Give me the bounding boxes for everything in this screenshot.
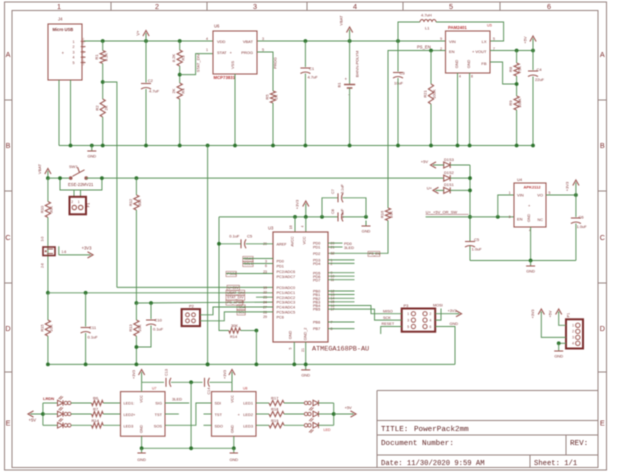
svg-text:PC1/ADC1: PC1/ADC1 — [277, 291, 296, 295]
svg-text:2: 2 — [73, 45, 75, 49]
svg-text:VSS: VSS — [230, 61, 235, 69]
svg-text:VIN: VIN — [449, 39, 456, 44]
svg-text:3: 3 — [262, 37, 264, 41]
svg-text:C: C — [600, 233, 605, 242]
svg-text:Sheet: 1/1: Sheet: 1/1 — [534, 460, 577, 468]
svg-text:PD1: PD1 — [313, 246, 320, 250]
svg-text:8.2K: 8.2K — [104, 53, 109, 62]
svg-text:VBAT: VBAT — [339, 15, 344, 26]
svg-text:LED2: LED2 — [243, 412, 253, 417]
svg-text:APK2112: APK2112 — [524, 185, 542, 190]
svg-text:GND_2: GND_2 — [304, 328, 308, 341]
svg-text:R9: R9 — [508, 100, 513, 106]
svg-text:4: 4 — [572, 342, 574, 346]
svg-text:U3: U3 — [268, 226, 274, 231]
svg-text:SDA: SDA — [238, 306, 246, 310]
svg-text:5: 5 — [449, 2, 453, 11]
svg-text:+3V3: +3V3 — [82, 246, 93, 251]
svg-text:+3V3: +3V3 — [448, 309, 457, 313]
svg-text:GND: GND — [229, 457, 238, 462]
svg-text:TITLE:: TITLE: — [381, 426, 408, 434]
svg-text:2: 2 — [155, 2, 159, 11]
svg-text:STAT_DIV: STAT_DIV — [196, 53, 201, 72]
svg-text:A: A — [6, 50, 11, 59]
svg-text:B: B — [6, 141, 11, 150]
svg-text:LED1: LED1 — [243, 401, 253, 406]
svg-text:SIG: SIG — [155, 401, 162, 406]
svg-text:2: 2 — [572, 330, 574, 334]
svg-text:SDA1: SDA1 — [244, 257, 253, 261]
svg-text:PC3/ADC7: PC3/ADC7 — [277, 275, 296, 279]
svg-text:18: 18 — [289, 225, 293, 229]
svg-text:+3V3: +3V3 — [223, 370, 227, 379]
svg-text:MCP73831: MCP73831 — [214, 75, 236, 80]
svg-text:10K: 10K — [389, 211, 394, 218]
svg-text:R14: R14 — [230, 334, 238, 339]
svg-text:0.1uF: 0.1uF — [153, 327, 164, 332]
svg-text:1-6: 1-6 — [62, 250, 67, 254]
svg-text:C14: C14 — [207, 388, 211, 395]
svg-text:PD7: PD7 — [313, 278, 320, 282]
svg-text:GND: GND — [289, 331, 293, 340]
svg-text:5: 5 — [73, 61, 75, 65]
svg-text:C: C — [5, 233, 10, 242]
svg-text:UBAT_DIV: UBAT_DIV — [227, 291, 245, 295]
svg-text:30K: 30K — [231, 323, 238, 328]
svg-text:C5: C5 — [474, 237, 480, 242]
svg-text:FB: FB — [481, 61, 486, 66]
svg-text:R6: R6 — [93, 396, 99, 401]
svg-text:R10: R10 — [39, 205, 44, 213]
svg-text:GND: GND — [301, 372, 310, 377]
svg-text:R15: R15 — [39, 324, 44, 332]
svg-text:BHNN-POLYM: BHNN-POLYM — [355, 51, 360, 77]
svg-text:AREF: AREF — [277, 242, 288, 246]
svg-text:1: 1 — [509, 191, 511, 195]
svg-text:LED2: LED2 — [124, 412, 134, 417]
svg-text:29: 29 — [263, 315, 267, 319]
svg-text:J4: J4 — [58, 17, 63, 22]
svg-text:Date: 11/30/2020 9:59 AM: Date: 11/30/2020 9:59 AM — [381, 460, 485, 468]
svg-text:100K: 100K — [517, 98, 522, 108]
svg-text:0.1uF: 0.1uF — [341, 183, 345, 193]
svg-text:2-6: 2-6 — [41, 263, 45, 268]
svg-text:MISO: MISO — [383, 309, 393, 313]
svg-text:L1: L1 — [425, 26, 430, 31]
svg-text:STAT_DIV: STAT_DIV — [227, 296, 244, 300]
svg-text:LED1:: LED1: — [124, 401, 135, 406]
svg-text:D1S3: D1S3 — [444, 157, 454, 162]
svg-text:+5V: +5V — [29, 418, 37, 423]
svg-text:8.2K: 8.2K — [171, 54, 176, 63]
svg-text:STAT: STAT — [217, 50, 227, 55]
svg-text:GND: GND — [137, 457, 146, 462]
svg-text:3: 3 — [265, 259, 267, 263]
svg-text:6: 6 — [547, 2, 551, 11]
svg-text:B: B — [600, 141, 605, 150]
svg-text:B1: B1 — [337, 82, 342, 88]
svg-text:4: 4 — [73, 56, 75, 60]
svg-text:LED3: LED3 — [124, 424, 134, 429]
svg-text:MOSI: MOSI — [433, 304, 443, 308]
svg-text:VCC: VCC — [231, 395, 235, 403]
svg-text:SCL: SCL — [238, 310, 245, 314]
svg-text:REV:: REV: — [570, 440, 588, 448]
svg-text:3: 3 — [572, 336, 574, 340]
svg-text:1: 1 — [57, 2, 61, 11]
svg-text:PC6: PC6 — [277, 315, 284, 319]
svg-text:R16: R16 — [380, 210, 385, 218]
svg-text:5: 5 — [493, 37, 495, 41]
svg-text:PROG: PROG — [241, 50, 253, 55]
svg-text:10K: 10K — [48, 324, 53, 331]
svg-text:R7: R7 — [93, 407, 99, 412]
svg-text:4: 4 — [430, 318, 432, 322]
svg-text:100K: 100K — [432, 89, 437, 99]
svg-text:22uF: 22uF — [535, 77, 545, 82]
svg-text:F1: F1 — [86, 202, 91, 207]
svg-text:GND: GND — [81, 59, 85, 65]
svg-text:R8: R8 — [508, 66, 513, 72]
svg-text:GND: GND — [526, 269, 535, 274]
svg-text:3LED: 3LED — [172, 397, 182, 402]
svg-text:5: 5 — [549, 191, 551, 195]
svg-text:U5: U5 — [487, 24, 492, 28]
svg-text:SW1: SW1 — [69, 164, 78, 169]
svg-text:PSO2: PSO2 — [227, 272, 237, 276]
svg-text:2K: 2K — [104, 105, 109, 110]
svg-text:PS_EN: PS_EN — [417, 45, 431, 50]
svg-text:D-: D- — [81, 45, 85, 48]
svg-text:LRDN: LRDN — [43, 396, 54, 401]
svg-text:C7: C7 — [331, 189, 335, 194]
svg-text:3: 3 — [509, 215, 511, 219]
svg-text:D1S2: D1S2 — [444, 170, 454, 175]
svg-text:1.0uF: 1.0uF — [577, 224, 588, 229]
svg-text:VCC: VCC — [303, 236, 307, 244]
svg-text:22: 22 — [263, 291, 267, 295]
svg-text:LX: LX — [482, 39, 487, 44]
svg-text:Document Number:: Document Number: — [381, 440, 454, 448]
svg-text:R4: R4 — [181, 88, 186, 94]
svg-text:GND: GND — [450, 322, 459, 326]
svg-text:SDO: SDO — [215, 424, 223, 429]
svg-text:GND: GND — [140, 425, 144, 433]
svg-text:2K: 2K — [274, 94, 279, 99]
svg-text:E: E — [6, 419, 11, 428]
svg-text:32: 32 — [331, 252, 335, 256]
svg-text:D1S1: D1S1 — [444, 182, 454, 187]
svg-text:PD1: PD1 — [277, 264, 284, 268]
svg-text:C11: C11 — [89, 325, 97, 330]
svg-text:4: 4 — [206, 37, 208, 41]
svg-text:24: 24 — [263, 301, 267, 305]
svg-text:6: 6 — [430, 325, 432, 329]
svg-text:GND: GND — [231, 425, 235, 433]
svg-text:P2: P2 — [189, 304, 195, 309]
svg-text:R21: R21 — [423, 90, 428, 98]
svg-text:1: 1 — [73, 40, 75, 44]
svg-text:+3V3: +3V3 — [531, 310, 535, 319]
svg-text:6: 6 — [265, 264, 267, 268]
svg-text:R5: R5 — [265, 94, 270, 100]
svg-text:R19: R19 — [271, 418, 279, 423]
svg-text:VCC: VCC — [140, 395, 144, 403]
svg-text:PB6: PB6 — [313, 321, 320, 325]
svg-text:P3: P3 — [404, 303, 410, 308]
svg-text:PD2: PD2 — [313, 252, 320, 256]
svg-text:PS_EN: PS_EN — [369, 252, 381, 256]
svg-text:NC: NC — [538, 218, 544, 222]
svg-text:3: 3 — [253, 2, 257, 11]
svg-text:3LED: 3LED — [344, 245, 354, 250]
svg-text:RESET: RESET — [382, 322, 395, 326]
svg-text:5: 5 — [262, 48, 264, 52]
svg-text:R13: R13 — [128, 324, 133, 332]
svg-text:C13: C13 — [165, 369, 169, 376]
svg-text:GND: GND — [467, 60, 471, 69]
svg-text:PC2/ADC6: PC2/ADC6 — [277, 270, 296, 274]
svg-text:C3: C3 — [400, 71, 406, 76]
svg-text:PB5: PB5 — [313, 308, 320, 312]
svg-text:ESE-22MV21: ESE-22MV21 — [68, 182, 94, 187]
svg-text:PAM2401: PAM2401 — [448, 25, 467, 30]
svg-text:D+: D+ — [81, 50, 85, 54]
svg-text:2: 2 — [430, 312, 432, 316]
svg-text:30K: 30K — [137, 199, 142, 206]
svg-text:R14: R14 — [92, 418, 100, 423]
svg-text:U6: U6 — [214, 24, 220, 29]
svg-text:GND: GND — [527, 214, 531, 222]
svg-text:P1: P1 — [567, 313, 571, 318]
svg-text:GND: GND — [455, 60, 459, 69]
svg-text:U7: U7 — [152, 386, 156, 390]
svg-text:ID: ID — [81, 56, 85, 59]
svg-text:SOS: SOS — [154, 424, 163, 429]
svg-text:VIN: VIN — [517, 193, 524, 198]
svg-text:R18: R18 — [271, 407, 279, 412]
svg-text:GND: GND — [554, 354, 563, 359]
svg-text:Micro USB: Micro USB — [53, 27, 74, 32]
svg-text:VO: VO — [537, 193, 543, 198]
svg-text:3: 3 — [73, 50, 75, 54]
svg-text:C1: C1 — [309, 66, 315, 71]
svg-text:5: 5 — [407, 325, 409, 329]
svg-text:0.1uF: 0.1uF — [88, 335, 99, 340]
svg-text:PowerPack2mm: PowerPack2mm — [414, 426, 469, 434]
svg-text:SDI: SDI — [215, 401, 222, 406]
svg-text:PC3/ADC3: PC3/ADC3 — [277, 301, 296, 305]
svg-text:U+: U+ — [427, 185, 433, 190]
svg-text:C4: C4 — [537, 67, 543, 72]
svg-text:19: 19 — [263, 286, 267, 290]
svg-text:EN: EN — [517, 217, 523, 222]
svg-text:2K: 2K — [171, 88, 176, 93]
svg-text:+: + — [62, 51, 65, 56]
svg-text:SCL1: SCL1 — [244, 262, 253, 266]
svg-text:30K: 30K — [48, 206, 53, 213]
svg-text:PC5/ADC5: PC5/ADC5 — [277, 311, 296, 315]
svg-text:+ VOUT: + VOUT — [472, 49, 487, 54]
svg-text:C6: C6 — [579, 215, 585, 220]
svg-text:C8: C8 — [331, 209, 335, 214]
svg-text:VDD: VDD — [217, 39, 226, 44]
svg-text:TST: TST — [155, 412, 163, 417]
svg-text:10uF: 10uF — [394, 81, 404, 86]
svg-text:10K: 10K — [137, 324, 142, 331]
svg-text:D: D — [5, 324, 10, 333]
svg-text:R12: R12 — [128, 198, 133, 206]
svg-text:1: 1 — [206, 48, 208, 52]
svg-text:2: 2 — [71, 200, 73, 204]
svg-text:LED: LED — [324, 428, 331, 432]
svg-text:R1: R1 — [94, 54, 99, 60]
svg-text:4.7uF: 4.7uF — [308, 75, 319, 80]
svg-text:SCK: SCK — [383, 316, 391, 320]
svg-text:PD4: PD4 — [313, 262, 320, 266]
svg-text:VBAT: VBAT — [243, 39, 254, 44]
svg-text:V+: V+ — [136, 30, 141, 36]
svg-text:4: 4 — [300, 225, 304, 227]
svg-text:U+_+5V_OR_SW: U+_+5V_OR_SW — [426, 210, 458, 215]
svg-text:+5V: +5V — [345, 405, 353, 410]
svg-text:TST: TST — [215, 412, 223, 417]
svg-text:AVCC: AVCC — [291, 236, 295, 247]
svg-text:1.0uF: 1.0uF — [472, 247, 483, 252]
svg-text:PC0/ADC0: PC0/ADC0 — [277, 286, 296, 290]
svg-text:EN: EN — [449, 49, 455, 54]
svg-text:PC2/ADC2: PC2/ADC2 — [277, 296, 296, 300]
svg-text:C2: C2 — [148, 78, 154, 83]
svg-text:R17: R17 — [271, 396, 279, 401]
svg-text:D: D — [600, 324, 605, 333]
svg-text:ATMEGA168PB-AU: ATMEGA168PB-AU — [312, 346, 369, 354]
svg-text:LED3: LED3 — [243, 424, 253, 429]
svg-text:+5V: +5V — [523, 36, 528, 44]
svg-text:4.7uH: 4.7uH — [421, 13, 432, 18]
svg-text:1: 1 — [572, 324, 574, 328]
svg-text:PROG: PROG — [273, 57, 278, 69]
svg-text:0.1uF: 0.1uF — [341, 208, 345, 218]
svg-text:C10: C10 — [155, 318, 163, 323]
svg-text:PD0: PD0 — [277, 260, 284, 264]
svg-text:VBAT: VBAT — [37, 163, 42, 174]
svg-text:9: 9 — [440, 37, 442, 41]
svg-text:4: 4 — [353, 2, 357, 11]
svg-text:GND: GND — [362, 229, 371, 234]
svg-text:R2: R2 — [95, 105, 100, 111]
svg-text:C5: C5 — [247, 234, 253, 239]
svg-text:U8: U8 — [243, 386, 247, 390]
svg-text:R3: R3 — [181, 55, 186, 61]
svg-text:+5V: +5V — [421, 159, 429, 164]
svg-text:3-0: 3-0 — [41, 236, 45, 241]
svg-text:0.1uF: 0.1uF — [229, 234, 240, 239]
svg-text:75K: 75K — [517, 66, 522, 73]
svg-text:PS_nPWR: PS_nPWR — [227, 301, 245, 305]
svg-text:PC4/ADC4: PC4/ADC4 — [277, 306, 296, 310]
svg-text:1: 1 — [78, 200, 80, 204]
svg-text:GND: GND — [87, 154, 96, 159]
svg-text:4: 4 — [459, 75, 461, 79]
svg-text:+3V3: +3V3 — [565, 181, 570, 191]
svg-text:U+DIV: U+DIV — [228, 286, 239, 290]
svg-text:5: 5 — [289, 347, 293, 349]
svg-text:+3V3: +3V3 — [132, 370, 136, 379]
svg-text:1: 1 — [407, 312, 409, 316]
svg-text:+5V: +5V — [549, 310, 553, 317]
svg-text:21: 21 — [301, 348, 305, 352]
svg-text:8: 8 — [471, 75, 473, 79]
svg-text:4.7uF: 4.7uF — [149, 89, 160, 94]
svg-text:PB7: PB7 — [313, 327, 320, 331]
svg-text:3: 3 — [407, 318, 409, 322]
svg-text:U4: U4 — [517, 177, 523, 182]
svg-text:A: A — [600, 50, 605, 59]
svg-text:E: E — [600, 419, 605, 428]
svg-text:+3V3: +3V3 — [295, 199, 300, 209]
